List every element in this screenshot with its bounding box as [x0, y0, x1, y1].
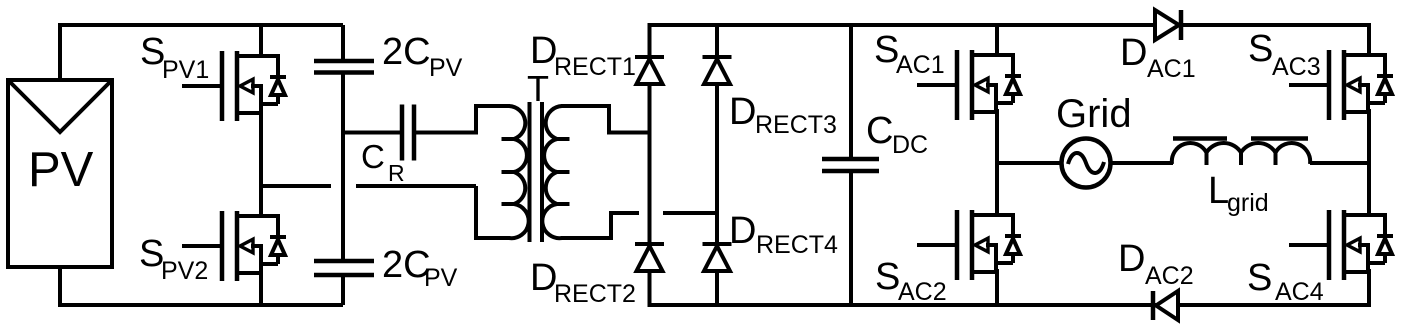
svg-text:PV: PV	[424, 264, 458, 292]
svg-text:RECT2: RECT2	[554, 280, 636, 308]
transformer T primary winding	[509, 106, 529, 238]
transformer T core	[528, 102, 532, 242]
wire grid node to AC source	[995, 161, 1062, 165]
svg-text:L: L	[1208, 170, 1229, 212]
svg-text:D: D	[1118, 238, 1145, 280]
svg-text:R: R	[388, 160, 405, 186]
capacitor 2C_PV top	[341, 25, 345, 61]
svg-text:C: C	[866, 110, 893, 152]
wire S_PV2 source to bottom rail	[259, 270, 263, 307]
svg-text:AC2: AC2	[1145, 262, 1194, 290]
capacitor 2C_PV bottom	[314, 259, 374, 264]
svg-text:AC4: AC4	[1275, 278, 1324, 306]
diode D_RECT1	[635, 57, 664, 84]
wire S_AC3 source to midpoint	[1367, 109, 1371, 165]
wire secondary top lead to rectifier left column	[561, 106, 651, 133]
diode D_RECT3	[703, 57, 732, 84]
svg-text:PV2: PV2	[161, 257, 208, 285]
wire S_AC1 drain to top rail	[995, 23, 999, 55]
svg-text:PV: PV	[429, 54, 463, 82]
transistor S_AC2	[917, 210, 1021, 280]
capacitor C_DC	[849, 23, 853, 159]
svg-text:S: S	[1247, 257, 1272, 299]
wire midpoint line corner down to transformer primary bottom	[476, 186, 510, 238]
svg-text:PV1: PV1	[162, 56, 209, 84]
wire midpoint line continues (right of capacitor branch)	[356, 184, 476, 188]
transistor S_AC1	[917, 50, 1021, 120]
diode D_AC1 on top rail	[1179, 10, 1184, 40]
wire S_AC3 drain to top rail	[1367, 23, 1371, 55]
svg-text:AC1: AC1	[896, 51, 945, 79]
wire S_AC2 source to bottom rail	[995, 269, 999, 307]
wire S_PV1 source to midpoint	[259, 110, 263, 188]
transformer T secondary winding	[542, 106, 562, 238]
wire secondary bottom lead continues to rectifier right column	[663, 211, 719, 215]
svg-text:AC2: AC2	[898, 278, 947, 306]
PV panel source	[8, 80, 112, 267]
wire top rail left section	[60, 25, 343, 80]
AC source Grid	[1062, 139, 1111, 188]
wire midpoint to S_PV2 drain	[259, 184, 263, 216]
svg-text:Grid: Grid	[1056, 92, 1132, 136]
diode D_AC2 on bottom rail	[1151, 291, 1156, 320]
svg-text:T: T	[527, 68, 549, 109]
transistor S_AC4	[1289, 210, 1393, 280]
wire secondary bottom lead	[561, 213, 639, 238]
svg-text:RECT4: RECT4	[756, 231, 838, 259]
svg-text:2C: 2C	[382, 31, 431, 73]
svg-text:S: S	[1248, 28, 1273, 70]
transistor S_PV1	[182, 51, 286, 121]
svg-text:RECT3: RECT3	[755, 111, 837, 139]
wire midpoint to S_AC4 drain	[1367, 161, 1371, 215]
wire grid node to S_AC2 drain	[995, 161, 999, 215]
wire half-bridge midpoint line (left of capacitor branch)	[259, 184, 331, 188]
wire inductor to right leg midpoint	[1310, 161, 1371, 165]
svg-text:PV: PV	[28, 143, 94, 197]
svg-text:AC1: AC1	[1147, 55, 1196, 83]
wire S_PV1 drain to top rail	[259, 23, 263, 56]
svg-text:DC: DC	[892, 131, 928, 159]
diode D_RECT2	[635, 244, 664, 271]
diode D_RECT4	[703, 244, 732, 271]
svg-text:D: D	[729, 91, 756, 133]
svg-text:RECT1: RECT1	[554, 53, 636, 81]
wire capacitor branch middle	[341, 73, 345, 262]
wire bottom rail left section	[60, 267, 343, 305]
svg-text:S: S	[875, 256, 900, 298]
transistor S_AC3	[1289, 50, 1393, 120]
capacitor C_R	[400, 105, 405, 161]
transistor S_PV2	[182, 211, 286, 281]
svg-text:grid: grid	[1227, 189, 1269, 217]
wire S_AC1 source to grid node	[995, 109, 999, 165]
wire C_R to transformer primary top	[416, 106, 510, 133]
wire S_AC4 source to bottom rail	[1367, 269, 1371, 307]
svg-text:D: D	[729, 210, 756, 252]
wire capacitor midpoint to C_R	[343, 131, 400, 135]
wire rectifier right column	[715, 23, 719, 307]
inductor L_grid	[1172, 143, 1310, 164]
svg-text:AC3: AC3	[1272, 53, 1321, 81]
wire bottom rail right section	[648, 303, 1369, 307]
wire top rail right section	[648, 23, 1369, 27]
svg-text:D: D	[1120, 32, 1147, 74]
wire AC source to inductor	[1111, 161, 1174, 165]
wire rectifier left column	[648, 23, 652, 307]
svg-text:C: C	[361, 138, 385, 175]
